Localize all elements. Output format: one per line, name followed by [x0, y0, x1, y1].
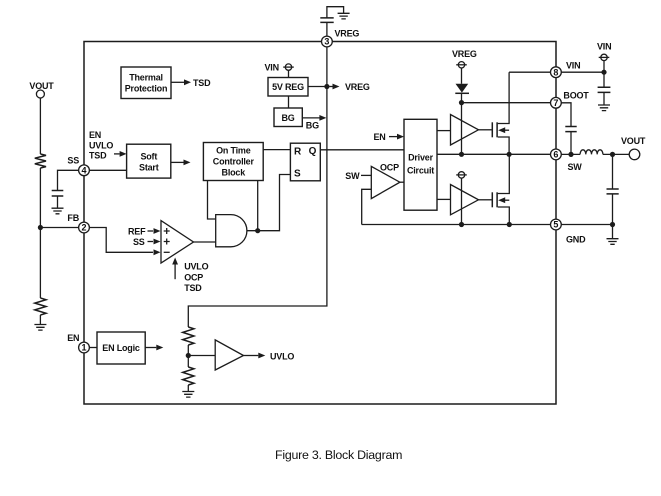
transistor Q1 high-side NMOS [492, 72, 509, 154]
svg-text:UVLO: UVLO [89, 140, 113, 150]
svg-text:TSD: TSD [193, 78, 211, 88]
wire R-UVLO2 to ground [187, 385, 189, 392]
pin 5 [551, 219, 562, 230]
node dot BOOT rail [459, 100, 464, 105]
wire VIN to 5V REG [288, 70, 290, 77]
wire LS buffer to gate [479, 199, 492, 201]
wire OCP output to driver [400, 181, 404, 183]
terminal VREG (bootstrap diode) [452, 49, 477, 68]
svg-text:Q: Q [309, 146, 317, 157]
node dot VREG output [324, 84, 329, 89]
wire VOUT node to C-OUT [612, 154, 614, 189]
wire BOOT rail through HS buffer to SW rail [461, 103, 463, 155]
svg-text:3: 3 [324, 37, 329, 47]
wire VIN rail pin8 to Q1 drain [509, 71, 550, 73]
wire Q output to driver [320, 149, 404, 151]
inductor L1 [580, 150, 603, 155]
wire VREG terminal through LS buffer to GND rail [461, 178, 463, 224]
terminal VIN (above 5V REG) [265, 63, 294, 73]
svg-text:REF: REF [128, 227, 146, 237]
wire divider node to R-UVLO2 [187, 356, 189, 368]
svg-text:BG: BG [306, 120, 319, 130]
svg-text:On Time: On Time [216, 146, 251, 156]
terminal VIN (top right) [597, 42, 611, 61]
svg-text:SW: SW [345, 171, 360, 181]
pin 8 [551, 67, 562, 78]
resistor R-UVLO1 [183, 327, 194, 345]
wire driver to low-side buffer [437, 198, 451, 200]
flip-flop RS [290, 143, 320, 181]
wire SW rail (driver to pin 6) [437, 153, 551, 155]
resistor R-UVLO2 [183, 367, 194, 385]
svg-text:5V REG: 5V REG [272, 82, 304, 92]
svg-text:VREG: VREG [452, 49, 477, 59]
transistor Q2 low-side NMOS [492, 154, 509, 224]
wire OCP lower input from GND rail [362, 189, 372, 224]
wire GND node to ground [612, 225, 614, 239]
arrow into Soft Start [114, 151, 127, 157]
capacitor C-VREG (top, pin 3) [320, 7, 343, 36]
terminal VOUT (top left) [29, 81, 54, 98]
capacitor C-BOOT [565, 127, 576, 132]
arrow VREG out [330, 82, 370, 92]
svg-text:7: 7 [553, 98, 558, 108]
svg-text:VIN: VIN [597, 42, 611, 52]
ground (C-VIN) [598, 105, 610, 111]
node dot AND/OTC [255, 228, 260, 233]
svg-text:VREG: VREG [345, 82, 370, 92]
node dot GND rail (Q2 source) [507, 222, 512, 227]
wire inductor to VOUT node [603, 153, 629, 155]
node dot FB [38, 225, 43, 230]
wire AND output to S input [247, 175, 291, 231]
svg-text:SS: SS [133, 237, 145, 247]
block On Time Controller [203, 143, 263, 181]
arrow UVLO OCP TSD into error amp [172, 258, 208, 294]
node dot GND rail (LS buffer) [459, 222, 464, 227]
pin 6 [551, 149, 562, 160]
wire divider node to UVLO comparator [188, 355, 215, 357]
wire OTC to R input [263, 149, 290, 151]
terminal VREG (low-side buffer) [456, 172, 467, 178]
arrow SS input [148, 239, 161, 245]
svg-text:VOUT: VOUT [29, 81, 54, 91]
wire 5V REG to BG [288, 96, 290, 108]
svg-text:VOUT: VOUT [621, 136, 646, 146]
wire VIN node to C-VIN [603, 72, 605, 87]
node dot UVLO divider [186, 353, 191, 358]
wire R2 to ground [39, 315, 41, 325]
pin 1 [79, 342, 90, 353]
capacitor C-VIN [598, 87, 611, 92]
svg-text:Protection: Protection [125, 84, 168, 94]
svg-text:8: 8 [553, 67, 558, 77]
svg-text:EN: EN [67, 333, 79, 343]
wire SW into OCP [361, 174, 371, 176]
block 5V REG [268, 78, 308, 97]
svg-text:UVLO: UVLO [184, 262, 208, 272]
wire pin 7 to C-BOOT [561, 103, 571, 127]
svg-text:4: 4 [81, 166, 86, 176]
resistor R-FB2 [35, 298, 46, 315]
svg-text:VREG: VREG [335, 28, 360, 38]
svg-text:BG: BG [281, 113, 294, 123]
svg-text:VIN: VIN [566, 60, 580, 70]
node dot VIN [601, 70, 606, 75]
svg-text:Soft: Soft [140, 152, 157, 162]
svg-text:TSD: TSD [89, 151, 107, 161]
node dot SW rail (Q1 source) [507, 152, 512, 157]
wire diode to BOOT node [461, 93, 463, 102]
buffer high-side driver [451, 115, 479, 146]
svg-text:EN Logic: EN Logic [102, 343, 140, 353]
wire VOUT to R1 [39, 98, 41, 154]
svg-text:OCP: OCP [184, 272, 203, 282]
wire R1 to FB node [39, 168, 41, 228]
wire R-UVLO1 to divider node [187, 345, 189, 356]
arrow EN Logic out [145, 345, 163, 351]
wire pin4 to Soft Start [89, 169, 126, 171]
block Soft Start [127, 144, 171, 178]
wire HS buffer to gate [479, 129, 492, 131]
diode D1 [455, 84, 469, 94]
wire error amp out to AND [194, 241, 216, 243]
wire FB node to R2 [39, 228, 41, 299]
node dot SW rail (HS buffer) [459, 152, 464, 157]
buffer low-side driver [451, 185, 479, 215]
svg-text:Block: Block [222, 168, 247, 178]
wire pin 6 to inductor [561, 153, 580, 155]
node dot SW/BOOT [568, 152, 573, 157]
wire VIN node to pin 8 [561, 71, 604, 73]
wire FB to error amp minus input [89, 228, 153, 253]
comparator UVLO [215, 340, 243, 370]
labels EN UVLO TSD (soft start inputs) [89, 130, 113, 161]
svg-text:2: 2 [81, 223, 86, 233]
svg-text:S: S [294, 168, 301, 179]
svg-text:SS: SS [67, 156, 79, 166]
svg-text:VIN: VIN [265, 63, 279, 73]
pin 2 [79, 222, 90, 233]
svg-text:GND: GND [566, 234, 586, 244]
op-amp error amplifier [161, 221, 194, 264]
block EN Logic [97, 332, 145, 364]
wire driver to high-side buffer [437, 130, 451, 132]
wire SS cap to ground [57, 196, 59, 208]
wire pin 1 to EN Logic [89, 347, 97, 349]
svg-text:TSD: TSD [184, 283, 202, 293]
svg-text:Start: Start [139, 162, 159, 172]
svg-text:BOOT: BOOT [563, 91, 589, 101]
svg-text:R: R [294, 147, 302, 158]
capacitor C-OUT [607, 189, 619, 194]
wire OTC bottom-left to AND gate [208, 181, 216, 220]
wire FB node to pin 2 [40, 227, 78, 229]
wire VREG terminal to diode [461, 68, 463, 84]
pin 3 [322, 36, 333, 47]
wire 5V REG output to VREG line [308, 86, 327, 88]
ground (C-OUT) [607, 239, 619, 245]
wire C-OUT to GND node [612, 194, 614, 225]
arrow UVLO output [244, 351, 295, 361]
wire C-VIN to ground [603, 92, 605, 105]
svg-text:5: 5 [553, 220, 558, 230]
svg-text:Circuit: Circuit [407, 165, 434, 175]
node dot VOUT [610, 152, 615, 157]
svg-text:6: 6 [553, 150, 558, 160]
arrow TSD out [171, 78, 211, 88]
pin 4 [79, 165, 90, 176]
capacitor C-SS [52, 191, 64, 197]
ground (FB divider) [34, 325, 46, 331]
node dot GND/C-OUT [610, 222, 615, 227]
resistor R-FB1 [35, 154, 46, 168]
arrow Soft Start out [171, 160, 191, 166]
terminal VOUT (right) [621, 136, 646, 160]
svg-text:Thermal: Thermal [129, 73, 163, 83]
AND gate [216, 215, 247, 247]
wire pin4 to SS cap [58, 170, 79, 190]
comparator OCP [371, 166, 400, 198]
arrow FB into error amp [154, 249, 161, 255]
wire pin 5 to GND node [561, 224, 612, 226]
svg-text:Controller: Controller [213, 157, 255, 167]
ground (top, near pin 3 cap) [338, 13, 350, 19]
ground (UVLO divider) [182, 392, 194, 398]
svg-text:UVLO: UVLO [270, 351, 294, 361]
IC boundary box [84, 42, 556, 405]
block BG [274, 108, 302, 127]
svg-text:FB: FB [67, 213, 79, 223]
svg-text:1: 1 [81, 343, 86, 353]
svg-text:EN: EN [374, 132, 386, 142]
wire BOOT node to pin 7 [462, 102, 551, 104]
svg-text:Driver: Driver [408, 152, 434, 162]
block Driver Circuit [404, 119, 437, 210]
svg-text:OCP: OCP [380, 162, 399, 172]
svg-text:EN: EN [89, 130, 101, 140]
wire GND rail (OCP to pin 5) [362, 224, 551, 226]
wire C-BOOT to SW node [570, 132, 572, 155]
wire BG output arrow to VREG line [302, 115, 326, 130]
ground (SS cap) [52, 208, 64, 214]
arrow EN into driver [389, 134, 404, 140]
svg-text:SW: SW [568, 162, 583, 172]
arrow REF input [148, 228, 161, 234]
svg-text:Figure 3. Block Diagram: Figure 3. Block Diagram [275, 448, 402, 462]
pin 7 [551, 97, 562, 108]
wire VIN terminal to node [603, 61, 605, 73]
block Thermal Protection [121, 67, 171, 99]
wire OTC bottom-right to AND output node [257, 181, 259, 231]
wire VREG vertical (pin 3 down to UVLO divider) [188, 47, 327, 327]
